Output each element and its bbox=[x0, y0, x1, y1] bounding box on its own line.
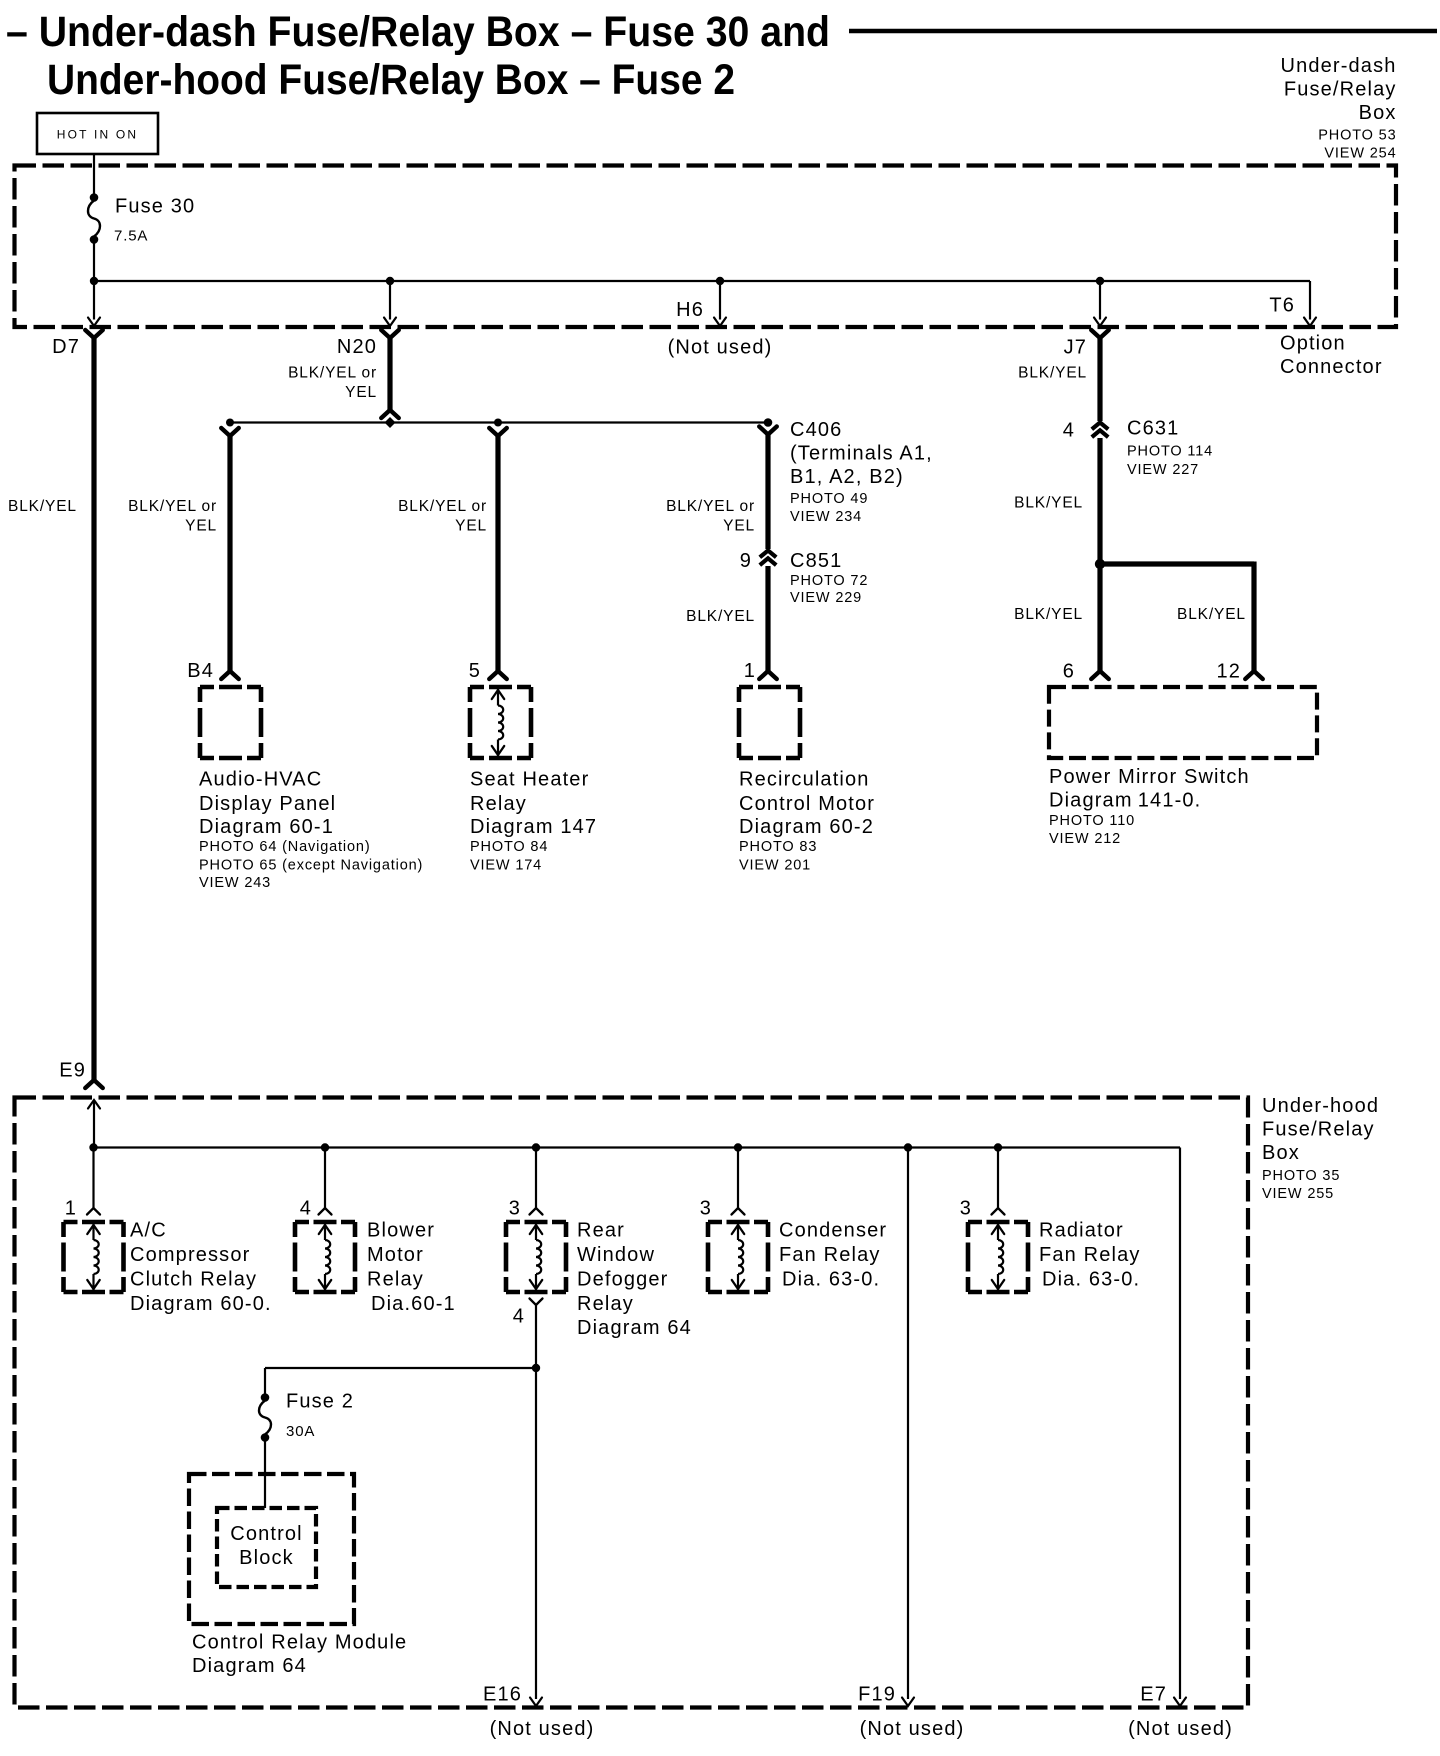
svg-text:PHOTO 72: PHOTO 72 bbox=[790, 573, 868, 589]
wire fuse 2 to control block bbox=[264, 1441, 266, 1508]
svg-text:BLK/YEL or: BLK/YEL or bbox=[128, 498, 217, 515]
svg-text:VIEW 255: VIEW 255 bbox=[1262, 1186, 1334, 1202]
node bus2 end at C406 bbox=[764, 418, 773, 427]
wire drop to F19 bbox=[907, 1148, 909, 1700]
fuse F2 30A bbox=[261, 1393, 270, 1402]
svg-text:PHOTO 64 (Navigation): PHOTO 64 (Navigation) bbox=[199, 839, 371, 855]
svg-text:BLK/YEL: BLK/YEL bbox=[1018, 365, 1087, 382]
wire C631 to junction (BLK/YEL) bbox=[1097, 438, 1102, 564]
svg-text:Radiator: Radiator bbox=[1039, 1220, 1124, 1242]
svg-text:Diagram 60-0.: Diagram 60-0. bbox=[130, 1293, 272, 1315]
control block (inner dashed box) bbox=[217, 1508, 316, 1587]
svg-text:BLK/YEL: BLK/YEL bbox=[8, 498, 77, 515]
svg-text:N20: N20 bbox=[337, 336, 377, 358]
svg-text:1: 1 bbox=[65, 1198, 77, 1220]
relay K4 Condenser Fan Relay bbox=[708, 1220, 768, 1225]
wire D7 trunk (BLK/YEL) bbox=[85, 330, 103, 338]
svg-text:3: 3 bbox=[509, 1198, 521, 1220]
svg-text:3: 3 bbox=[700, 1198, 712, 1220]
wire J7 trunk to C631 bbox=[1091, 330, 1109, 338]
wire HOT IN ON to fuse 30 bbox=[93, 154, 95, 197]
svg-text:Dia.60-1: Dia.60-1 bbox=[371, 1293, 456, 1315]
node junction F19 drop bbox=[904, 1143, 912, 1151]
svg-text:Relay: Relay bbox=[577, 1293, 634, 1315]
svg-text:VIEW 212: VIEW 212 bbox=[1049, 831, 1121, 847]
svg-text:Display Panel: Display Panel bbox=[199, 793, 336, 815]
pin 4 defogger relay (bottom) bbox=[530, 1299, 543, 1306]
svg-text:A/C: A/C bbox=[130, 1220, 167, 1242]
svg-text:12: 12 bbox=[1216, 661, 1241, 683]
svg-text:9: 9 bbox=[740, 550, 752, 572]
svg-text:(Not used): (Not used) bbox=[490, 1718, 595, 1740]
pin E7 (Not used) bbox=[1174, 1698, 1186, 1707]
svg-text:Diagram 60-2: Diagram 60-2 bbox=[739, 816, 874, 838]
svg-text:PHOTO 35: PHOTO 35 bbox=[1262, 1168, 1340, 1184]
svg-text:YEL: YEL bbox=[455, 518, 487, 535]
svg-text:J7: J7 bbox=[1064, 337, 1087, 359]
svg-text:Condenser: Condenser bbox=[779, 1220, 887, 1242]
wire N20 to bus2 bbox=[381, 330, 399, 338]
svg-text:Connector: Connector bbox=[1280, 356, 1383, 378]
svg-text:Diagram 141-0.: Diagram 141-0. bbox=[1049, 790, 1201, 812]
wire drop to D7 with arrow bbox=[93, 281, 95, 320]
wire branch to power mirror pin 12 (BLK/YEL) bbox=[1100, 561, 1254, 566]
svg-text:Seat Heater: Seat Heater bbox=[470, 769, 589, 791]
svg-text:Relay: Relay bbox=[470, 793, 527, 815]
relay K3 Rear Window Defogger Relay bbox=[506, 1220, 566, 1225]
node diamond junction N20/bus2 bbox=[385, 417, 396, 428]
svg-text:BLK/YEL: BLK/YEL bbox=[1177, 606, 1246, 623]
svg-text:Rear: Rear bbox=[577, 1220, 625, 1242]
svg-text:BLK/YEL: BLK/YEL bbox=[686, 608, 755, 625]
svg-text:Control Relay Module: Control Relay Module bbox=[192, 1632, 407, 1654]
svg-text:B1, A2, B2): B1, A2, B2) bbox=[790, 466, 904, 488]
svg-text:VIEW 234: VIEW 234 bbox=[790, 509, 862, 525]
relay K2 Blower Motor Relay bbox=[295, 1220, 355, 1225]
svg-text:Window: Window bbox=[577, 1244, 655, 1266]
svg-text:Under-hood Fuse/Relay Box – Fu: Under-hood Fuse/Relay Box – Fuse 2 bbox=[47, 56, 735, 104]
svg-text:Compressor: Compressor bbox=[130, 1244, 250, 1266]
svg-text:Relay: Relay bbox=[367, 1268, 424, 1290]
svg-text:4: 4 bbox=[300, 1198, 312, 1220]
connector C851 (in-line) bbox=[760, 551, 776, 558]
svg-text:BLK/YEL or: BLK/YEL or bbox=[398, 498, 487, 515]
component box Power Mirror Switch bbox=[1049, 687, 1317, 758]
wire branch to B4 (BLK/YEL or YEL) bbox=[221, 428, 239, 436]
svg-text:C851: C851 bbox=[790, 550, 842, 572]
node junction A/C relay bbox=[89, 1143, 97, 1151]
connector C631 (in-line) bbox=[1092, 423, 1108, 430]
svg-text:Fan Relay: Fan Relay bbox=[1039, 1244, 1141, 1266]
svg-text:4: 4 bbox=[1063, 420, 1075, 442]
wire branch to C406 bbox=[759, 427, 777, 435]
component box Audio-HVAC Display Panel (B4) bbox=[200, 685, 261, 690]
svg-text:Defogger: Defogger bbox=[577, 1268, 668, 1290]
node bus2 end at B4 branch bbox=[226, 419, 234, 427]
svg-text:F19: F19 bbox=[858, 1684, 896, 1706]
node junction defogger relay bbox=[532, 1143, 540, 1151]
svg-text:Fan Relay: Fan Relay bbox=[779, 1244, 881, 1266]
wire drop to blower relay pin 4 bbox=[324, 1148, 326, 1209]
wire drop to T6 with arrow bbox=[1309, 281, 1311, 320]
node junction N20 drop bbox=[386, 277, 394, 285]
svg-text:Recirculation: Recirculation bbox=[739, 769, 870, 791]
svg-text:HOT IN ON: HOT IN ON bbox=[57, 128, 139, 142]
svg-text:VIEW 227: VIEW 227 bbox=[1127, 462, 1199, 478]
svg-text:30A: 30A bbox=[286, 1423, 315, 1440]
wire drop to A/C relay pin 1 bbox=[92, 1148, 94, 1209]
svg-text:BLK/YEL or: BLK/YEL or bbox=[288, 365, 377, 382]
node bus junction at fuse bbox=[90, 277, 98, 285]
svg-text:VIEW 243: VIEW 243 bbox=[199, 875, 271, 891]
svg-text:Dia. 63-0.: Dia. 63-0. bbox=[782, 1268, 880, 1290]
svg-text:5: 5 bbox=[469, 660, 481, 682]
wire bus2 horizontal bbox=[230, 421, 768, 423]
svg-text:VIEW 201: VIEW 201 bbox=[739, 858, 811, 874]
svg-text:BLK/YEL: BLK/YEL bbox=[1014, 606, 1083, 623]
node junction H6 drop bbox=[716, 277, 724, 285]
wire junction to power mirror pin 6 (BLK/YEL) bbox=[1097, 564, 1102, 671]
wire branch to seat heater relay pin 5 bbox=[489, 428, 507, 436]
wire drop to condenser relay pin 3 bbox=[737, 1148, 739, 1209]
svg-text:Audio-HVAC: Audio-HVAC bbox=[199, 769, 322, 791]
node junction J7 drop bbox=[1096, 277, 1104, 285]
pin E16 (Not used) bbox=[530, 1698, 542, 1707]
svg-text:YEL: YEL bbox=[345, 384, 377, 401]
svg-text:E7: E7 bbox=[1140, 1684, 1167, 1706]
svg-text:Under-dash: Under-dash bbox=[1280, 55, 1396, 77]
svg-text:VIEW 174: VIEW 174 bbox=[470, 858, 542, 874]
svg-text:BLK/YEL: BLK/YEL bbox=[1014, 495, 1083, 512]
svg-text:PHOTO 84: PHOTO 84 bbox=[470, 839, 548, 855]
svg-text:YEL: YEL bbox=[723, 518, 755, 535]
svg-text:1: 1 bbox=[744, 660, 756, 682]
svg-text:(Not used): (Not used) bbox=[860, 1718, 965, 1740]
svg-text:BLK/YEL or: BLK/YEL or bbox=[666, 498, 755, 515]
svg-text:C406: C406 bbox=[790, 419, 842, 441]
svg-text:3: 3 bbox=[960, 1198, 972, 1220]
title rule bbox=[849, 29, 1437, 34]
svg-text:– Under-dash Fuse/Relay Box –: – Under-dash Fuse/Relay Box – Fuse 30 an… bbox=[6, 8, 830, 56]
svg-text:Box: Box bbox=[1359, 102, 1397, 124]
node junction condenser relay bbox=[734, 1143, 742, 1151]
wire drop to defogger relay pin 3 bbox=[535, 1148, 537, 1209]
wire fuse 30 to bus bbox=[93, 243, 95, 281]
svg-text:Power Mirror Switch: Power Mirror Switch bbox=[1049, 766, 1250, 788]
svg-text:Motor: Motor bbox=[367, 1244, 424, 1266]
node junction blower relay bbox=[321, 1143, 329, 1151]
component box Seat Heater Relay with coil bbox=[470, 685, 531, 690]
wire C851 to recirculation motor pin 1 (BLK/YEL) bbox=[765, 566, 770, 671]
svg-text:PHOTO 110: PHOTO 110 bbox=[1049, 813, 1135, 829]
svg-text:Fuse 30: Fuse 30 bbox=[115, 196, 195, 218]
svg-text:Control Motor: Control Motor bbox=[739, 793, 875, 815]
svg-text:Blower: Blower bbox=[367, 1220, 435, 1242]
svg-text:Diagram 64: Diagram 64 bbox=[577, 1317, 692, 1339]
svg-text:PHOTO 114: PHOTO 114 bbox=[1127, 444, 1213, 460]
under-hood fuse/relay box (dashed) bbox=[15, 1098, 1249, 1708]
svg-text:(Not used): (Not used) bbox=[668, 337, 773, 359]
svg-text:Fuse 2: Fuse 2 bbox=[286, 1391, 354, 1413]
svg-text:PHOTO 49: PHOTO 49 bbox=[790, 491, 868, 507]
svg-text:PHOTO 83: PHOTO 83 bbox=[739, 839, 817, 855]
svg-text:Box: Box bbox=[1262, 1142, 1300, 1164]
wire drop to radiator relay pin 3 bbox=[997, 1148, 999, 1209]
svg-text:Block: Block bbox=[239, 1547, 294, 1569]
svg-text:6: 6 bbox=[1063, 661, 1075, 683]
fuse F30 7.5A bbox=[90, 193, 99, 202]
svg-text:YEL: YEL bbox=[185, 518, 217, 535]
svg-text:Dia. 63-0.: Dia. 63-0. bbox=[1042, 1268, 1140, 1290]
svg-text:Diagram 147: Diagram 147 bbox=[470, 816, 597, 838]
svg-text:Diagram 60-1: Diagram 60-1 bbox=[199, 816, 334, 838]
svg-text:Fuse/Relay: Fuse/Relay bbox=[1284, 79, 1397, 101]
svg-text:4: 4 bbox=[513, 1306, 525, 1328]
wire drop to H6 with arrow bbox=[719, 281, 721, 320]
svg-text:E9: E9 bbox=[59, 1060, 86, 1082]
wire main bus (under-dash box) bbox=[94, 280, 1310, 282]
svg-text:Clutch Relay: Clutch Relay bbox=[130, 1268, 257, 1290]
component box Recirculation Control Motor bbox=[739, 685, 800, 690]
under-dash fuse/relay box (dashed) bbox=[15, 166, 1397, 328]
node junction power mirror branch bbox=[1095, 559, 1105, 569]
svg-text:VIEW 229: VIEW 229 bbox=[790, 590, 862, 606]
svg-text:H6: H6 bbox=[676, 299, 704, 321]
node junction fuse 2 branch bbox=[532, 1364, 540, 1372]
svg-text:7.5A: 7.5A bbox=[114, 228, 148, 245]
svg-text:Fuse/Relay: Fuse/Relay bbox=[1262, 1119, 1375, 1141]
svg-text:Control: Control bbox=[230, 1523, 303, 1545]
node bus2 junction seat heater branch bbox=[494, 419, 502, 427]
wire drop to J7 with arrow bbox=[1099, 281, 1101, 320]
wire defogger pin 4 to E16 bbox=[535, 1305, 537, 1699]
svg-text:VIEW 254: VIEW 254 bbox=[1324, 146, 1396, 162]
relay K1 A/C Compressor Clutch Relay bbox=[64, 1220, 124, 1225]
svg-text:PHOTO 53: PHOTO 53 bbox=[1318, 128, 1396, 144]
wire drop to N20 with arrow bbox=[389, 281, 391, 320]
svg-text:Under-hood: Under-hood bbox=[1262, 1095, 1379, 1117]
svg-text:Diagram 64: Diagram 64 bbox=[192, 1655, 307, 1677]
HOT IN ON box bbox=[37, 113, 158, 154]
module Control Relay Module (outer dashed box) bbox=[189, 1474, 354, 1624]
svg-text:(Terminals A1,: (Terminals A1, bbox=[790, 443, 933, 465]
wire bus corner drop to E7 bbox=[1179, 1148, 1181, 1700]
node junction radiator relay bbox=[994, 1143, 1002, 1151]
svg-text:(Not used): (Not used) bbox=[1128, 1718, 1233, 1740]
relay K5 Radiator Fan Relay bbox=[968, 1220, 1028, 1225]
wire under-hood bus bbox=[94, 1146, 1181, 1148]
svg-text:T6: T6 bbox=[1269, 295, 1295, 317]
svg-text:D7: D7 bbox=[52, 336, 80, 358]
svg-text:Option: Option bbox=[1280, 333, 1346, 355]
svg-text:B4: B4 bbox=[187, 660, 214, 682]
wire E9 entry arrow into under-hood box bbox=[88, 1100, 100, 1109]
svg-text:PHOTO 65 (except Navigation): PHOTO 65 (except Navigation) bbox=[199, 858, 423, 874]
wire branch to fuse 2 bbox=[265, 1367, 536, 1369]
svg-text:C631: C631 bbox=[1127, 418, 1179, 440]
svg-text:E16: E16 bbox=[483, 1684, 522, 1706]
pin F19 (Not used) bbox=[902, 1698, 914, 1707]
